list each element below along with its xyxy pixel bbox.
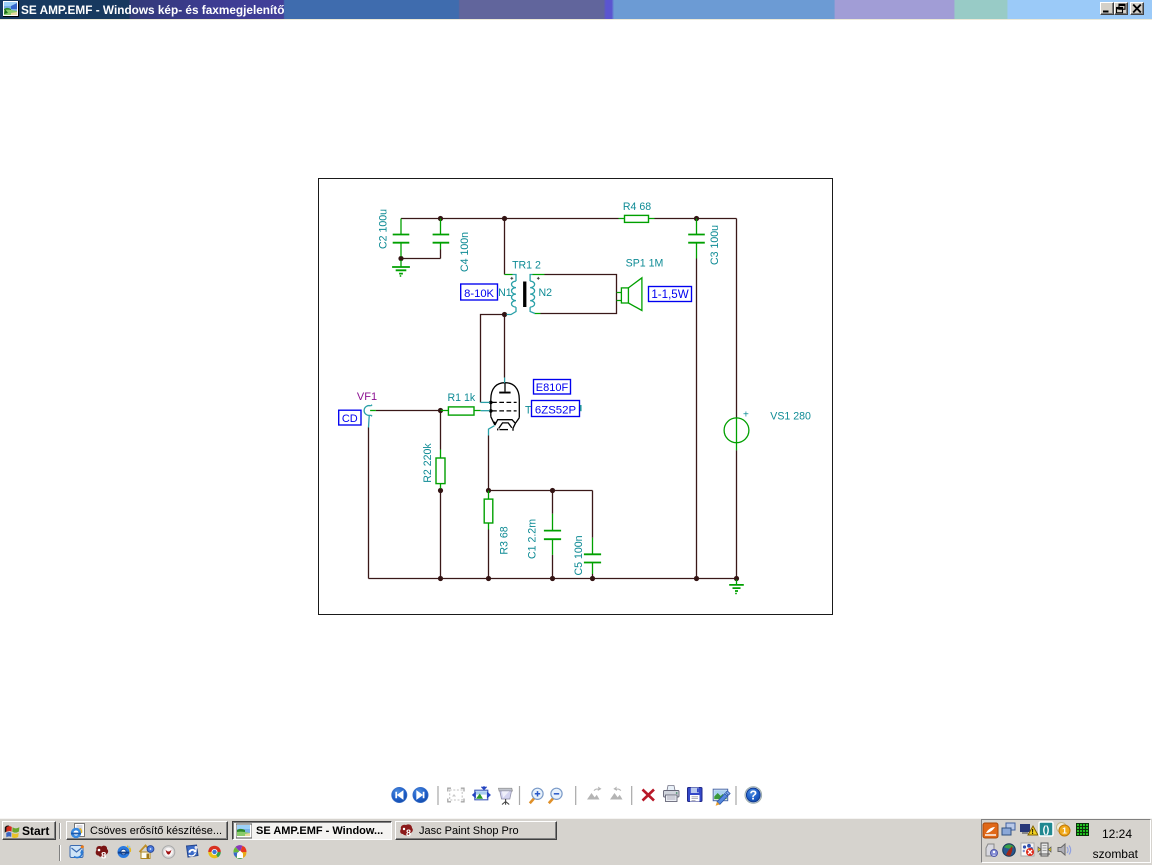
svg-text:+: + bbox=[743, 410, 749, 421]
svg-text:C1 2.2m: C1 2.2m bbox=[527, 519, 539, 559]
svg-text:1-1,5W: 1-1,5W bbox=[651, 288, 688, 301]
svg-text:R3 68: R3 68 bbox=[499, 526, 511, 554]
svg-text:CD: CD bbox=[342, 413, 358, 425]
svg-text:TR1 2: TR1 2 bbox=[512, 260, 541, 272]
svg-text:C5 100n: C5 100n bbox=[573, 535, 585, 575]
svg-text:R2 220k: R2 220k bbox=[422, 443, 434, 483]
svg-text:R1 1k: R1 1k bbox=[447, 392, 475, 404]
svg-text:C4 100n: C4 100n bbox=[459, 232, 471, 272]
svg-text:8-10K: 8-10K bbox=[464, 288, 494, 300]
svg-text:6ZS52P: 6ZS52P bbox=[535, 404, 576, 416]
svg-text:8: 8 bbox=[101, 851, 106, 862]
svg-text:R4 68: R4 68 bbox=[623, 201, 651, 213]
svg-text:N2: N2 bbox=[539, 287, 553, 299]
svg-text:VF1: VF1 bbox=[357, 391, 377, 403]
svg-text:VS1 280: VS1 280 bbox=[770, 411, 811, 423]
svg-text:?: ? bbox=[749, 789, 757, 803]
svg-text:!: ! bbox=[1032, 829, 1034, 836]
svg-text:SP1 1M: SP1 1M bbox=[626, 258, 664, 270]
svg-text:1: 1 bbox=[1062, 826, 1067, 836]
svg-text:C3 100u: C3 100u bbox=[709, 225, 721, 265]
svg-text:N1: N1 bbox=[498, 287, 512, 299]
svg-text:(): () bbox=[1043, 825, 1050, 836]
svg-text:C2 100u: C2 100u bbox=[378, 209, 390, 249]
svg-text:E810F: E810F bbox=[536, 382, 569, 394]
svg-text:8: 8 bbox=[406, 828, 411, 838]
